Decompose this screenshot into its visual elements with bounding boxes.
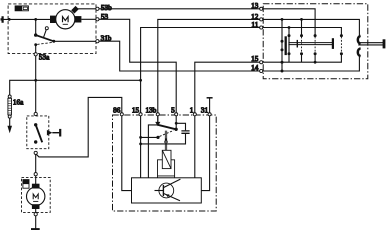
wire 11: relay 15 riser and run to switch terminal 11 bbox=[141, 28, 342, 178]
park switch open contact bbox=[45, 27, 48, 30]
slider bridge bar bbox=[288, 43, 333, 45]
wire 31b/14: park switch to wiper switch terminal 14, to bridge plug bbox=[54, 41, 360, 71]
node 282/12 junction bbox=[281, 18, 284, 21]
switch terminal 11 bbox=[260, 26, 263, 29]
contact grip lower bbox=[281, 48, 284, 51]
washer switch actuator stem bbox=[52, 132, 59, 134]
slider small tick bbox=[296, 40, 298, 48]
terminal 30 feed bar bbox=[1, 16, 4, 23]
washer switch actuator arrow bbox=[47, 130, 52, 136]
wire 12: relay 13b riser and run to switch terminal 12, to bridge plug bbox=[158, 19, 360, 122]
wiper motor M1 bbox=[50, 8, 81, 29]
svg-text:15: 15 bbox=[251, 55, 259, 63]
wire 31 ground riser into electronics bbox=[201, 98, 209, 191]
relay alternate contact dashed link bbox=[160, 130, 174, 136]
park switch arm end contact bbox=[52, 40, 55, 43]
wire washer switch to relay terminal 86 bbox=[36, 97, 122, 156]
terminal 53a bbox=[34, 53, 37, 56]
switch column 301.5 bbox=[301, 19, 303, 62]
intermittent wiper relay enclosure (dash-dot box) bbox=[113, 115, 217, 211]
wire washer switch to pump bbox=[35, 154, 37, 173]
wire cap top branch of node 5 bbox=[176, 123, 185, 130]
node bus/53a junction bbox=[34, 79, 37, 82]
relay coil K1 bbox=[162, 150, 171, 168]
relay contact A (node 5) bbox=[174, 128, 177, 131]
park switch pivot bbox=[34, 33, 37, 36]
node 15/contactB junction bbox=[139, 136, 142, 139]
slider right end bar bbox=[332, 38, 334, 49]
switch column 301.5 dashed bbox=[301, 37, 303, 53]
switch column 289 bbox=[288, 28, 290, 63]
washer switch S2 (dashed box) bbox=[27, 116, 49, 149]
relay armature arm bbox=[158, 125, 176, 130]
wire 86 into electronics bbox=[122, 114, 132, 190]
pump top terminal bbox=[34, 173, 37, 176]
contact grip upper bbox=[281, 40, 284, 43]
svg-text:31b: 31b bbox=[101, 34, 112, 42]
washer pump motor M2 (dashed box) bbox=[22, 178, 51, 213]
contact 289 upper bbox=[288, 34, 291, 37]
relay terminal 31 bbox=[208, 113, 211, 116]
washer switch lower contact bbox=[34, 140, 37, 143]
washer switch top terminal bbox=[34, 112, 37, 115]
pump M underline bbox=[33, 200, 38, 202]
bridge plug lower jaw bbox=[358, 48, 361, 56]
relay terminal 1 bbox=[193, 113, 196, 116]
wire bus: fuse to relay terminal 15 bbox=[10, 80, 141, 95]
relay coil actuating link bbox=[165, 131, 166, 151]
switch column 341.4 dashed bbox=[340, 37, 342, 53]
svg-text:1: 1 bbox=[190, 107, 194, 115]
motor M label bbox=[63, 17, 69, 23]
relay contact B bbox=[156, 136, 159, 139]
wire 15s: wiper switch 15 run to relay terminal 1 bbox=[195, 54, 342, 178]
node bus/relay-15 junction bbox=[139, 79, 142, 82]
wire pump to ground bbox=[35, 216, 37, 229]
terminal 53 bbox=[96, 18, 99, 21]
switch column 315.1 dashed bbox=[314, 37, 316, 53]
relay armature pivot triangle bbox=[155, 122, 160, 126]
electronics timer box bbox=[132, 178, 202, 203]
svg-text:31: 31 bbox=[201, 107, 209, 115]
wire 53b: motor brush to switch terminal 13 bbox=[78, 9, 315, 36]
contact 315.1 upper bbox=[314, 34, 317, 37]
relay contact pivot feed (13b) bbox=[157, 114, 159, 122]
contact 301.5 upper bbox=[300, 34, 303, 37]
svg-text:86: 86 bbox=[113, 107, 121, 115]
pump thermal cutout bbox=[23, 180, 29, 189]
bridge plug terminal bar bbox=[383, 39, 386, 48]
park switch alternate-position dashed link bbox=[37, 42, 52, 44]
fuse 16a bbox=[8, 95, 12, 118]
relay link arrowhead bbox=[164, 139, 167, 143]
pump bottom terminal bbox=[34, 213, 37, 216]
park switch 53a contact bbox=[34, 43, 37, 46]
switch terminal 14 bbox=[260, 69, 263, 72]
relay terminal 13b bbox=[156, 113, 159, 116]
park switch pivot feed wire bbox=[35, 19, 37, 34]
terminal 53b bbox=[96, 7, 99, 10]
node 315.1/15s junction bbox=[314, 61, 317, 64]
capacitor C1 plates bbox=[181, 131, 189, 133]
pump M label bbox=[33, 194, 38, 199]
slider pick bar bbox=[285, 36, 287, 55]
svg-text:16a: 16a bbox=[13, 98, 24, 106]
node 5 junction bbox=[175, 122, 178, 125]
node 301.5/12 junction bbox=[300, 18, 303, 21]
relay terminal 15 bbox=[139, 113, 142, 116]
thermal cutout switch bbox=[15, 6, 28, 11]
relay coil turret housing bbox=[158, 160, 175, 178]
svg-text:13b: 13b bbox=[146, 107, 157, 115]
terminal 31b bbox=[96, 40, 99, 43]
pump motor bbox=[27, 184, 45, 209]
svg-text:12: 12 bbox=[251, 13, 259, 21]
switch terminal 13 bbox=[260, 7, 263, 10]
switch terminal 12 bbox=[260, 18, 263, 21]
node box-edge junction bbox=[8, 18, 11, 21]
contact 315.1 lower bbox=[314, 52, 317, 55]
wire capacitor bottom to 15 riser bbox=[141, 134, 186, 144]
relay yoke bracket bbox=[148, 125, 157, 178]
svg-text:14: 14 bbox=[251, 64, 259, 72]
wire 53a down from park switch to washer switch bbox=[35, 45, 37, 114]
wire 53: motor brush, down, across, to relay terminal 5 bbox=[81, 19, 176, 129]
switch column 315.1 lower stub bbox=[314, 54, 316, 63]
contact 289 lower bbox=[288, 52, 291, 55]
contact 301.5 lower bbox=[300, 52, 303, 55]
ground bar bbox=[31, 228, 40, 230]
relay terminal 5 bbox=[175, 113, 178, 116]
park switch open contact stub bbox=[44, 30, 47, 38]
svg-text:13: 13 bbox=[251, 2, 259, 10]
bridge plug double bar bbox=[358, 43, 383, 45]
switch column 282 (12 to 14 feed finger) bbox=[281, 19, 283, 71]
bridge plug upper jaw bbox=[358, 36, 361, 44]
node 282/14 junction bbox=[281, 70, 284, 73]
node 282/15s junction bbox=[281, 61, 284, 64]
transistor Q1 bbox=[155, 179, 181, 201]
washer switch bottom terminal bbox=[34, 151, 37, 154]
wiper switch assembly enclosure (dash-dot box) bbox=[263, 4, 368, 79]
relay terminal 86 bbox=[120, 113, 123, 116]
wire contact B to 15 riser bbox=[141, 136, 158, 138]
wiper motor assembly enclosure (dashed box) bbox=[8, 4, 96, 54]
switch terminal 15 bbox=[260, 61, 263, 64]
park switch arm bbox=[36, 35, 54, 41]
washer switch actuator bar bbox=[59, 129, 61, 137]
node 289/11 junction bbox=[288, 26, 291, 29]
node 53a branch junction bbox=[34, 18, 37, 21]
contact 341.4 upper bbox=[340, 34, 343, 37]
svg-text:15: 15 bbox=[132, 107, 140, 115]
svg-text:53: 53 bbox=[101, 13, 109, 21]
motor M underline bbox=[63, 23, 68, 25]
svg-text:53b: 53b bbox=[101, 4, 112, 12]
node 15/cap junction bbox=[139, 143, 142, 146]
pump bottom stub bbox=[35, 209, 37, 213]
wire feed to motor bbox=[3, 18, 50, 20]
washer switch arm bbox=[36, 125, 43, 143]
relay ground bar for terminal 31 bbox=[207, 97, 213, 99]
svg-text:53a: 53a bbox=[39, 53, 50, 61]
fuse feed arrow bbox=[9, 118, 11, 126]
washer switch upper contact bbox=[34, 123, 37, 126]
svg-text:11: 11 bbox=[251, 21, 258, 29]
contact 341.4 lower bbox=[340, 52, 343, 55]
pump feed stub bbox=[35, 176, 37, 184]
svg-text:5: 5 bbox=[171, 107, 175, 115]
